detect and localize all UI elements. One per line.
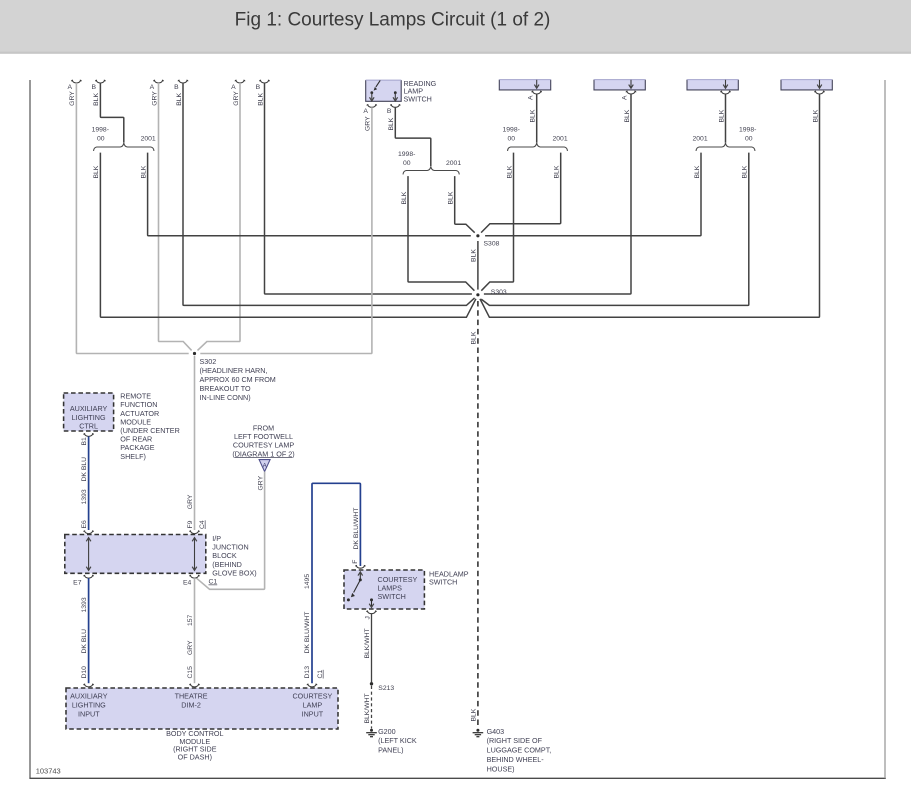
wire BLK box1 1998-00 to S303 [481,153,513,291]
svg-text:CTRL: CTRL [79,421,98,430]
block internal arrow right bottom head [192,567,197,571]
svg-text:A: A [263,463,267,469]
brace 2001/1998-00 box3 [696,143,755,151]
wire BLK lamp1-B to brace [100,83,123,143]
courtesy lamp box 4 arrow [819,80,821,87]
body control module note [166,729,223,761]
block internal arrow right [194,538,196,570]
svg-text:(HEADLINER HARN,: (HEADLINER HARN, [200,366,268,375]
svg-text:GRY: GRY [365,116,372,131]
svg-text:2001: 2001 [693,136,708,143]
svg-text:E6: E6 [81,520,88,529]
reading contact A arrowhead [370,97,375,101]
connector cup block bottom E7 [84,575,94,578]
svg-text:1998-: 1998- [503,127,520,134]
svg-text:(RIGHT SIDE OF: (RIGHT SIDE OF [487,736,543,745]
svg-text:DK BLU: DK BLU [81,457,88,482]
svg-text:GRY: GRY [151,91,158,106]
auxiliary lighting ctrl text [70,404,108,430]
svg-text:FROM: FROM [253,423,274,432]
svg-text:A: A [231,84,236,91]
svg-text:B: B [387,108,392,115]
courtesy lamp box 3 arrow [725,80,727,87]
wire GRY lamp2 to S302 [159,83,192,350]
svg-text:BLK/WHT: BLK/WHT [364,628,371,658]
auxiliary lighting ctrl box [64,393,114,431]
svg-text:HOUSE): HOUSE) [487,764,515,773]
wire BLK group1 1998-00 to S303 [100,153,476,318]
connector cup switch F [356,566,366,569]
svg-text:DK BLU/WHT: DK BLU/WHT [304,612,311,654]
block internal arrow left bottom head [86,567,91,571]
bcm auxiliary lighting input text [70,691,108,718]
connector cup box 4 [815,91,825,94]
svg-text:BLK: BLK [554,165,561,178]
from left footwell note [232,423,294,458]
wire BLK/WHT switch to S213 [371,614,373,683]
svg-text:BLK: BLK [694,165,701,178]
svg-text:G200: G200 [378,727,396,736]
courtesy lamp box 1 arrow [536,80,538,87]
courtesy lamp box 1 [499,80,550,90]
wire DK BLU/WHT BCM to switch [312,483,360,683]
block internal arrow left [88,538,90,570]
svg-text:BLK: BLK [257,92,264,105]
remote function actuator note [120,392,180,461]
switch contact J [370,598,373,601]
svg-text:BLK: BLK [401,191,408,204]
svg-text:BLK: BLK [176,92,183,105]
wire GRY lamp3 to S302 [198,83,241,350]
svg-text:A: A [363,108,368,115]
connector cup BCM C15 [190,684,200,687]
courtesy lamp box 2 [594,80,645,90]
reading switch contact A [370,91,373,94]
svg-text:DK BLU: DK BLU [81,629,88,654]
svg-text:OF DASH): OF DASH) [178,752,212,761]
svg-text:COURTESY LAMP: COURTESY LAMP [233,441,294,450]
ip junction block box [65,535,206,574]
brace 1998-00/2001 reading [403,167,459,175]
svg-text:BLK: BLK [471,249,478,262]
courtesy lamp box 2 arrowhead [629,85,634,89]
svg-text:00: 00 [745,136,753,143]
svg-text:GRY: GRY [69,91,76,106]
svg-text:C1: C1 [317,670,324,679]
svg-text:1998-: 1998- [398,151,415,158]
svg-text:GRY: GRY [187,494,194,509]
splice S213 [370,682,373,685]
wire BLK box4 to S303 [480,94,820,317]
svg-text:BLK: BLK [624,109,631,122]
svg-text:BLK: BLK [742,165,749,178]
wire DK BLU block to BCM [88,578,90,683]
connector cup A lamp 2 [154,80,164,83]
connector cup BCM D13 [307,684,317,687]
block internal arrow right top head [192,538,197,542]
svg-text:BLK: BLK [471,331,478,344]
svg-text:G403: G403 [487,727,505,736]
bcm courtesy lamp input text [292,691,332,718]
svg-text:C4: C4 [199,520,206,529]
svg-text:BLK: BLK [471,708,478,721]
svg-text:BLK: BLK [812,109,819,122]
label G403 [487,727,552,774]
wire BLK reading-B to brace [395,107,431,166]
svg-text:THEATRE: THEATRE [175,691,208,700]
header bar [0,0,911,54]
reading switch contact B [394,91,397,94]
wire BLK box3 2001 to S308 [485,153,701,236]
svg-text:F: F [352,560,359,564]
courtesy lamp box 4 arrowhead [817,85,822,89]
svg-text:BLK: BLK [93,92,100,105]
svg-text:S213: S213 [378,685,394,692]
wire BLK lamp2-B to S303 [183,83,475,305]
svg-text:F9: F9 [187,520,194,528]
svg-text:1998-: 1998- [739,127,756,134]
triangle connector A [259,460,270,472]
svg-text:1495: 1495 [304,574,311,589]
svg-text:2001: 2001 [141,136,156,143]
wire BLK box2 to S303 [484,94,631,294]
connector cup block top E6 [84,531,94,534]
splice S302 [193,352,196,355]
switch lever [354,580,361,593]
svg-text:INPUT: INPUT [78,709,100,718]
svg-text:INPUT: INPUT [302,709,324,718]
reading lamp switch box [366,80,402,101]
svg-text:BREAKOUT TO: BREAKOUT TO [200,384,252,393]
switch contact J arrowhead [369,604,374,608]
connector cup reading A [367,105,377,108]
switch arrow to F head [358,572,363,576]
wire BLK reading 2001 to S308 [455,176,475,233]
svg-text:DK BLU/WHT: DK BLU/WHT [353,508,360,550]
svg-text:A: A [622,95,629,100]
switch pivot dot [359,578,362,581]
svg-text:GRY: GRY [187,640,194,655]
svg-text:Fig 1: Courtesy Lamps Circuit: Fig 1: Courtesy Lamps Circuit (1 of 2) [235,10,551,31]
reading switch contact A arrow [371,93,373,100]
svg-text:00: 00 [97,136,105,143]
courtesy lamp box 3 [687,80,738,90]
svg-text:1393: 1393 [81,489,88,504]
switch contact open [347,598,350,601]
frame right border [884,80,886,778]
connector cup switch J [367,611,377,614]
svg-text:SHELF): SHELF) [120,452,146,461]
svg-text:DIM-2: DIM-2 [181,700,201,709]
wire BLK S308 to S303 [477,241,479,290]
reading lamp switch label [404,79,437,103]
svg-text:LEFT FOOTWELL: LEFT FOOTWELL [234,432,293,441]
svg-text:(LEFT KICK: (LEFT KICK [378,736,417,745]
svg-text:BLK: BLK [530,109,537,122]
wire BLK box3 to brace [725,94,727,143]
svg-text:PANEL): PANEL) [378,746,403,755]
splice S303 [476,293,479,296]
wire BLK lamp3-B to S303 [265,83,472,294]
dashed wire BLK/WHT S213 to G200 [371,686,373,729]
svg-text:SWITCH: SWITCH [378,592,406,601]
courtesy lamp box 1 arrowhead [534,85,539,89]
splice S308 [476,234,479,237]
wire GRY block to BCM [194,578,196,683]
reading contact B arrowhead [393,97,398,101]
svg-text:BEHIND WHEEL-: BEHIND WHEEL- [487,755,545,764]
svg-text:COURTESY: COURTESY [292,691,332,700]
connector cup block top F9 [190,531,200,534]
connector cup box 2 [626,91,636,94]
svg-text:A: A [68,84,73,91]
courtesy lamps switch text [378,575,418,601]
connector cup B lamp 2 [178,80,188,83]
ground G403 [473,733,484,737]
svg-text:2001: 2001 [446,160,461,167]
frame left border [29,80,31,778]
svg-text:LIGHTING: LIGHTING [72,700,106,709]
svg-text:LAMP: LAMP [303,700,323,709]
courtesy lamp box 2 arrow [630,80,632,87]
svg-text:E4: E4 [183,580,192,587]
connector cup box 1 [532,91,542,94]
courtesy lamp box 3 arrowhead [723,85,728,89]
headlamp switch label [429,569,469,586]
svg-text:IN-LINE CONN): IN-LINE CONN) [200,393,251,402]
svg-text:B1: B1 [81,437,88,446]
wire GRY footwell to E4 [197,472,265,590]
svg-text:1393: 1393 [81,597,88,612]
brace 1998-00/2001 box1 [508,143,568,151]
svg-text:J: J [364,616,371,619]
reading switch lever [376,80,380,87]
body control module box [66,688,338,729]
connector cup BCM D10 [84,684,94,687]
svg-text:BLK: BLK [388,117,395,130]
connector cup block bottom E4 [190,575,200,578]
svg-text:APPROX 60 CM FROM: APPROX 60 CM FROM [200,375,276,384]
svg-text:BLK: BLK [140,165,147,178]
svg-text:E7: E7 [73,580,82,587]
block internal arrow left top head [86,538,91,542]
svg-text:BLK: BLK [93,165,100,178]
wire GRY S302 to junction block [194,356,196,530]
svg-text:BLK/WHT: BLK/WHT [364,693,371,723]
svg-text:C1: C1 [209,579,218,586]
svg-text:A: A [150,84,155,91]
svg-text:00: 00 [403,160,411,167]
svg-text:D10: D10 [81,666,88,679]
wire BLK box1 2001 to S308 [481,153,561,233]
connector cup aux ctrl [84,434,94,437]
connector cup A lamp 1 [72,80,82,83]
wire BLK box3 1998-00 to S303 [481,153,749,306]
bcm theatre dim-2 text [175,691,208,709]
svg-text:D13: D13 [304,666,311,679]
dashed wire BLK S303 to G403 [477,301,479,728]
svg-text:BLK: BLK [448,191,455,204]
svg-text:(DIAGRAM 1 OF 2): (DIAGRAM 1 OF 2) [232,449,294,458]
label G200 [378,727,417,755]
wire BLK group1 2001 to S308 [148,153,471,236]
switch arrow to F [359,573,361,580]
svg-text:00: 00 [508,136,516,143]
svg-text:B: B [92,84,97,91]
frame bottom border [29,777,885,779]
svg-text:C15: C15 [187,666,194,679]
svg-text:B: B [256,84,261,91]
svg-text:2001: 2001 [553,136,568,143]
svg-text:BLK: BLK [506,165,513,178]
svg-text:1998-: 1998- [92,127,109,134]
svg-text:A: A [527,95,534,100]
svg-text:AUXILIARY: AUXILIARY [70,691,108,700]
courtesy lamps switch box [344,570,424,609]
wire DK BLU aux to block [88,436,90,530]
wire BLK reading 1998-00 to S303 [408,176,474,291]
courtesy lamp box 4 [781,80,832,90]
reading switch contact B arrow [394,93,396,100]
svg-text:S308: S308 [484,241,500,248]
svg-text:GRY: GRY [233,91,240,106]
connector cup A lamp 3 [235,80,245,83]
svg-text:S303: S303 [491,289,507,296]
ip junction block note [212,534,256,577]
wire GRY reading to S302 [200,107,372,353]
brace 1998-00/2001 group1 [94,143,155,151]
connector cup B lamp 1 [96,80,106,83]
svg-text:103743: 103743 [36,766,61,775]
svg-text:LUGGAGE COMPT,: LUGGAGE COMPT, [487,746,552,755]
svg-text:GLOVE BOX): GLOVE BOX) [212,568,256,577]
svg-text:SWITCH: SWITCH [404,94,432,103]
ground G200 [366,733,377,737]
svg-text:GRY: GRY [257,475,264,490]
svg-text:157: 157 [187,614,194,626]
svg-text:B: B [174,84,179,91]
wire BLK box1 to brace [536,94,538,143]
connector cup B lamp 3 [260,80,270,83]
switch contact J arrow [371,600,373,606]
connector cup reading B [391,105,401,108]
connector cup box 3 [721,91,731,94]
svg-text:BLK: BLK [718,109,725,122]
svg-text:SWITCH: SWITCH [429,578,457,587]
svg-text:S302: S302 [200,357,217,366]
label S302 note [200,357,276,402]
wire GRY lamp1 to S302 [76,83,188,354]
